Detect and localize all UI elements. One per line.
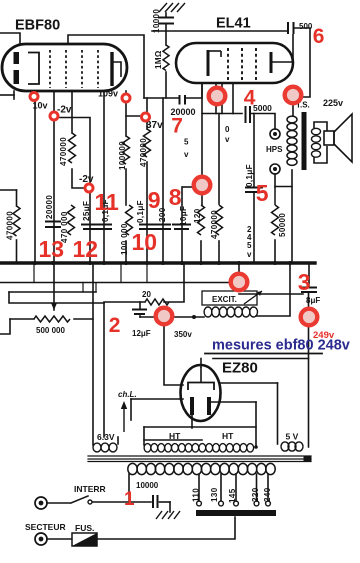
svg-text:5: 5 bbox=[184, 138, 189, 147]
svg-text:9: 9 bbox=[148, 187, 161, 213]
svg-text:10v: 10v bbox=[33, 101, 48, 111]
svg-text:470000: 470000 bbox=[6, 211, 15, 240]
svg-text:13: 13 bbox=[39, 236, 65, 262]
svg-text:1MΩ: 1MΩ bbox=[154, 50, 163, 69]
svg-text:0,1μF: 0,1μF bbox=[245, 164, 254, 187]
svg-text:220: 220 bbox=[251, 487, 260, 502]
svg-text:HT: HT bbox=[222, 431, 234, 441]
svg-text:v: v bbox=[225, 135, 230, 144]
svg-text:12μF: 12μF bbox=[132, 329, 151, 338]
svg-text:109v: 109v bbox=[98, 89, 118, 99]
svg-text:5: 5 bbox=[247, 241, 252, 250]
svg-text:145: 145 bbox=[228, 488, 237, 503]
svg-text:20: 20 bbox=[142, 290, 151, 299]
svg-text:25μF: 25μF bbox=[82, 201, 91, 221]
svg-text:470000: 470000 bbox=[139, 138, 148, 167]
svg-text:500 000: 500 000 bbox=[36, 326, 65, 335]
svg-text:37v: 37v bbox=[146, 120, 163, 131]
svg-text:500: 500 bbox=[299, 22, 313, 31]
svg-text:FUS.: FUS. bbox=[75, 523, 94, 533]
svg-text:100000: 100000 bbox=[118, 141, 127, 170]
svg-text:2: 2 bbox=[109, 314, 121, 337]
svg-text:HPS: HPS bbox=[266, 145, 283, 154]
svg-text:8μF: 8μF bbox=[306, 296, 320, 305]
svg-text:EZ80: EZ80 bbox=[222, 360, 258, 377]
svg-text:10000: 10000 bbox=[136, 481, 159, 490]
svg-text:350v: 350v bbox=[174, 330, 192, 339]
svg-text:10: 10 bbox=[132, 229, 158, 255]
svg-text:11: 11 bbox=[95, 189, 120, 215]
svg-text:10000: 10000 bbox=[152, 9, 161, 33]
svg-text:12: 12 bbox=[73, 236, 99, 262]
svg-text:470000: 470000 bbox=[210, 210, 219, 239]
svg-text:225v: 225v bbox=[323, 98, 343, 108]
svg-text:110: 110 bbox=[192, 488, 201, 502]
svg-text:4: 4 bbox=[244, 87, 256, 110]
svg-text:ch.L.: ch.L. bbox=[118, 390, 137, 399]
svg-text:0,1μF: 0,1μF bbox=[136, 200, 145, 223]
svg-text:8: 8 bbox=[169, 184, 182, 210]
svg-text:EBF80: EBF80 bbox=[15, 18, 60, 34]
svg-text:5: 5 bbox=[256, 180, 269, 206]
svg-text:mesures ebf80 248v: mesures ebf80 248v bbox=[212, 338, 350, 354]
svg-text:5 V: 5 V bbox=[286, 432, 299, 442]
svg-text:HT: HT bbox=[169, 431, 181, 441]
svg-text:6: 6 bbox=[313, 25, 325, 48]
svg-text:120: 120 bbox=[193, 208, 202, 223]
svg-text:5000: 5000 bbox=[253, 103, 272, 113]
svg-text:1: 1 bbox=[124, 489, 135, 510]
svg-text:EL41: EL41 bbox=[216, 16, 251, 32]
svg-text:3: 3 bbox=[298, 269, 311, 295]
svg-text:240: 240 bbox=[263, 487, 272, 502]
svg-text:130: 130 bbox=[210, 487, 219, 502]
svg-text:v: v bbox=[184, 150, 189, 159]
svg-text:470000: 470000 bbox=[59, 137, 68, 166]
svg-text:SECTEUR: SECTEUR bbox=[25, 522, 66, 532]
svg-text:50000: 50000 bbox=[278, 213, 287, 237]
svg-text:EXCIT.: EXCIT. bbox=[212, 295, 237, 304]
svg-text:0: 0 bbox=[225, 125, 230, 134]
svg-text:7: 7 bbox=[171, 115, 183, 138]
svg-text:v: v bbox=[247, 250, 252, 259]
svg-text:INTERR: INTERR bbox=[74, 484, 106, 494]
svg-text:100 000: 100 000 bbox=[120, 223, 129, 255]
svg-text:6.3V: 6.3V bbox=[97, 432, 115, 442]
svg-text:20000: 20000 bbox=[45, 195, 54, 219]
svg-text:-2v: -2v bbox=[57, 105, 72, 116]
